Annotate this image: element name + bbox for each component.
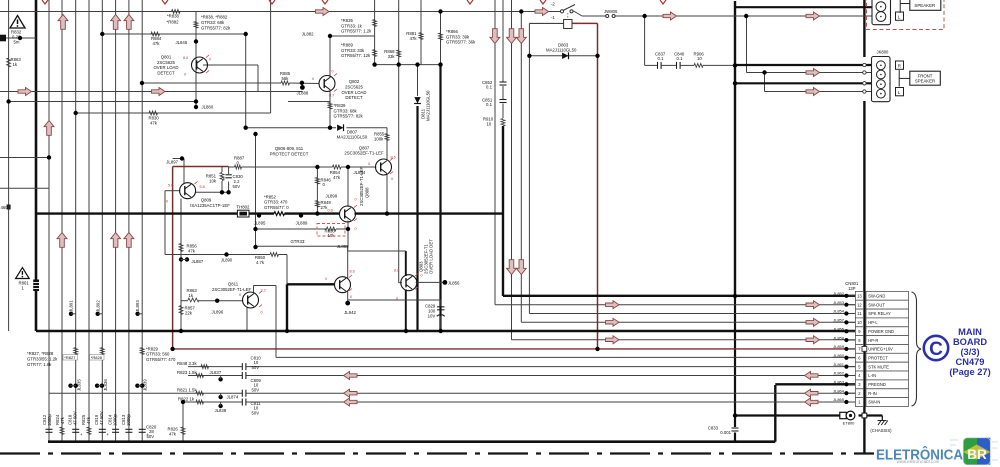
svg-text:0: 0 <box>368 162 370 166</box>
diode D811 <box>414 97 420 103</box>
svg-text:JL888: JL888 <box>297 91 309 96</box>
signal arrow right <box>806 336 820 344</box>
svg-text:DETECT: DETECT <box>157 70 175 75</box>
svg-text:1000p: 1000p <box>113 413 118 426</box>
wire R850 row <box>165 254 270 256</box>
wire <box>288 101 330 103</box>
label *R828 boxed <box>90 355 105 360</box>
svg-text:GTR33: 470: GTR33: 470 <box>264 200 288 205</box>
junction <box>181 400 185 404</box>
wire thick SW-GND row <box>503 295 855 297</box>
wire JW805 net <box>582 15 606 17</box>
wire R866 column <box>440 12 442 65</box>
node JL854 <box>844 311 848 315</box>
svg-text:+: + <box>107 432 110 437</box>
svg-text:DETECT: DETECT <box>345 95 363 100</box>
wire R835/R866 row <box>375 64 441 66</box>
wire thick board edge x864 <box>863 0 865 57</box>
svg-text:0: 0 <box>396 297 398 301</box>
node JL864 <box>844 391 848 395</box>
wire R863 row <box>181 300 188 302</box>
svg-text:JL852: JL852 <box>833 291 845 296</box>
signal arrow left <box>805 372 819 380</box>
svg-text:JL838: JL838 <box>215 408 227 413</box>
wire R887/R854 row <box>229 166 235 168</box>
svg-text:2SC5625: 2SC5625 <box>157 60 176 65</box>
resistor R823 <box>196 374 204 378</box>
junction <box>253 132 257 136</box>
junction <box>215 299 219 303</box>
junction <box>527 54 531 58</box>
wire UNREG+16V red row <box>173 348 856 350</box>
resistor R857 <box>179 306 183 315</box>
signal arrow right <box>806 318 820 326</box>
junction <box>180 156 184 160</box>
wire JL894 column <box>347 167 349 207</box>
wire <box>286 255 288 285</box>
junction <box>244 126 248 130</box>
svg-text:*R827, *R828: *R827, *R828 <box>27 351 54 356</box>
resistor R885 <box>281 81 290 85</box>
board edge hop <box>863 71 866 74</box>
wire jog <box>0 187 49 189</box>
connector CN801 pin 6 box <box>855 353 863 362</box>
wire SPK RELAY row <box>529 313 855 315</box>
signal arrow left <box>344 389 358 397</box>
svg-text:GTR55/77: 36k: GTR55/77: 36k <box>446 40 476 45</box>
wire Q802 collector column <box>329 36 331 77</box>
wire Q801 collector row <box>203 64 258 66</box>
junction <box>328 34 332 38</box>
connector CN801 pin 4 box <box>855 371 863 380</box>
capacitor C851 <box>500 99 507 101</box>
svg-text:HP-L: HP-L <box>868 320 878 325</box>
svg-text:L-IN: L-IN <box>868 373 876 378</box>
box FRONT SPEAKER <box>910 71 941 85</box>
resistor R824 <box>60 427 64 435</box>
connector CN801 pin 7 box <box>855 345 863 354</box>
svg-text:MAIN: MAIN <box>958 327 982 337</box>
brace <box>912 292 922 406</box>
junction <box>253 245 257 249</box>
wire <box>764 73 766 92</box>
svg-text:Q809: Q809 <box>201 198 212 203</box>
wire R868/Q803 base column <box>398 0 400 283</box>
junction <box>47 155 51 159</box>
capacitor C809 <box>241 372 243 379</box>
wire D803 row <box>529 55 597 57</box>
junction JL836 <box>100 384 104 388</box>
capacitor C810 <box>241 363 243 370</box>
wire <box>48 0 50 442</box>
wire <box>8 0 10 331</box>
wire thick JK800 L+ row <box>735 82 873 84</box>
wire thick detect bus <box>355 212 504 214</box>
svg-text:8.6: 8.6 <box>391 156 396 160</box>
wire top rail <box>0 11 562 13</box>
signal arrow right <box>18 88 32 96</box>
resistor R822 <box>196 400 204 404</box>
svg-text:(3/3): (3/3) <box>960 347 979 357</box>
svg-text:0: 0 <box>355 198 357 202</box>
resistor R887 <box>235 165 242 169</box>
junction <box>96 312 100 316</box>
node JL852 <box>844 294 848 298</box>
signal arrow down <box>516 29 526 44</box>
svg-text:Q807: Q807 <box>359 145 370 150</box>
label L box <box>896 12 904 20</box>
wire R-IN row <box>49 392 242 394</box>
wire Q803 base row <box>399 282 402 284</box>
junction <box>595 347 599 351</box>
svg-text:47k: 47k <box>169 431 177 436</box>
resistor R829 <box>140 348 144 355</box>
svg-text:*R838: *R838 <box>167 13 180 18</box>
page reference mark <box>660 0 666 4</box>
svg-text:-2: -2 <box>551 1 555 6</box>
svg-text:JL895: JL895 <box>254 221 266 226</box>
wire pin stub <box>849 313 856 315</box>
svg-text:13: 13 <box>857 294 862 299</box>
capacitor C837 <box>657 62 659 69</box>
wire <box>746 16 748 73</box>
capacitor C829 <box>437 306 444 308</box>
wire thick ET800 row <box>735 414 840 416</box>
warning symbol <box>16 268 30 279</box>
wire D811 column upper <box>417 65 419 96</box>
wire HP-L riser <box>520 12 522 323</box>
svg-text:JL835: JL835 <box>77 379 82 391</box>
svg-text:0: 0 <box>312 77 314 81</box>
wire R855 column <box>386 128 388 160</box>
svg-text:SW-OUT: SW-OUT <box>868 302 885 307</box>
capacitor C818 <box>72 428 79 430</box>
svg-text:47k: 47k <box>410 36 418 41</box>
warning symbol <box>10 16 25 29</box>
diode D803 <box>562 53 568 59</box>
svg-text:+: + <box>80 432 83 437</box>
svg-text:*R828: *R828 <box>91 355 103 360</box>
svg-text:OVER LOAD: OVER LOAD <box>341 90 366 95</box>
red probe tick <box>390 172 393 175</box>
wire <box>141 0 143 442</box>
wire <box>257 65 259 92</box>
capacitor coupling <box>241 390 243 397</box>
reference circle C <box>924 336 948 360</box>
page reference mark <box>42 0 48 4</box>
svg-text:*R839: *R839 <box>334 103 347 108</box>
svg-text:JL891: JL891 <box>69 300 74 312</box>
svg-text:33k: 33k <box>388 54 396 59</box>
svg-text:2SC3052EF-T1-LEF: 2SC3052EF-T1-LEF <box>359 166 364 206</box>
junction <box>642 14 646 18</box>
junction <box>438 62 442 66</box>
svg-text:JL889: JL889 <box>296 221 308 226</box>
svg-text:JL896: JL896 <box>212 310 224 315</box>
junction JL835 <box>68 384 72 388</box>
capacitor C813 <box>125 428 132 430</box>
connector CN801 pin 13 box <box>855 291 863 300</box>
wire JL882 link <box>330 35 375 37</box>
capacitor C840 <box>676 62 678 69</box>
wire pin stub <box>849 357 856 359</box>
junction <box>346 227 350 231</box>
svg-text:47k: 47k <box>153 41 161 46</box>
svg-text:Q802: Q802 <box>349 79 360 84</box>
connector CN801 pin 9 box <box>855 327 863 336</box>
resistor R826 <box>181 427 185 435</box>
connector CN801 pin 5 box <box>855 362 863 371</box>
signal arrow right <box>806 301 820 309</box>
svg-text:0.1: 0.1 <box>677 56 684 61</box>
junction <box>372 62 376 66</box>
transistor Q803 <box>401 275 417 291</box>
label *R827 boxed <box>63 355 78 360</box>
svg-text:MA2J1110GL50: MA2J1110GL50 <box>337 135 368 140</box>
wire pin stub <box>849 366 856 368</box>
watermark backdrop <box>874 446 1000 467</box>
svg-text:13P: 13P <box>848 286 856 291</box>
signal arrow right <box>316 8 330 16</box>
wire pin stub <box>849 304 856 306</box>
svg-text:OVER LOAD DET: OVER LOAD DET <box>429 239 434 274</box>
svg-text:*R838, *R882: *R838, *R882 <box>201 15 228 20</box>
svg-text:JL861: JL861 <box>833 362 845 367</box>
wire pin stub <box>849 339 856 341</box>
connector pin <box>877 61 886 70</box>
junction <box>439 329 443 333</box>
resistor R848 <box>201 365 209 369</box>
signal arrow up <box>58 15 68 30</box>
box SPEAKER <box>910 0 941 10</box>
svg-text:5m: 5m <box>14 40 20 45</box>
connector CN801 pin 3 box <box>855 380 863 389</box>
connector pin <box>877 70 886 79</box>
wire thick bottom bus <box>48 440 775 443</box>
svg-text:FRONT: FRONT <box>918 73 933 78</box>
junction <box>397 62 401 66</box>
wire thick POWER GND row <box>36 330 855 332</box>
junction <box>18 36 22 40</box>
connector CN801 pin 10 box <box>855 318 863 327</box>
svg-text:56k: 56k <box>282 76 290 81</box>
svg-text:JL863: JL863 <box>833 380 845 385</box>
svg-text:JL887: JL887 <box>192 259 204 264</box>
svg-text:GTR33:: GTR33: <box>290 239 305 244</box>
svg-text:R848 3.3k: R848 3.3k <box>177 361 197 366</box>
svg-text:1000p: 1000p <box>47 413 52 426</box>
page reference mark <box>467 0 473 4</box>
node JL837 <box>218 377 222 381</box>
svg-text:JL892: JL892 <box>96 300 101 312</box>
wire thick Q806 base riser <box>286 284 288 331</box>
svg-text:4.7k: 4.7k <box>256 260 265 265</box>
resistor R868 <box>397 50 401 57</box>
capacitor C833 <box>732 427 739 429</box>
svg-text:-1: -1 <box>551 15 555 20</box>
svg-text:GTR55/77: 82k: GTR55/77: 82k <box>334 114 364 119</box>
junction <box>762 70 766 74</box>
resistor R863 <box>7 58 11 67</box>
wire R885 row <box>142 82 281 84</box>
svg-text:BR: BR <box>967 447 987 462</box>
red probe tick <box>349 275 352 278</box>
junction <box>220 190 224 194</box>
signal arrow left <box>344 398 358 406</box>
node JL887 <box>179 257 183 261</box>
wire switch jog <box>574 11 583 16</box>
dashed option box <box>867 0 945 30</box>
signal arrow down <box>490 29 500 44</box>
svg-text:L: L <box>898 90 901 95</box>
svg-text:0: 0 <box>261 311 263 315</box>
svg-text:CN479: CN479 <box>956 357 985 367</box>
red probe tick <box>195 182 198 185</box>
wire R851 column <box>221 167 223 173</box>
junction JL839 <box>140 384 144 388</box>
svg-text:(Page 27): (Page 27) <box>949 367 990 377</box>
resistor R884 <box>151 32 160 36</box>
svg-text:R822 1k: R822 1k <box>178 397 195 402</box>
wire <box>164 191 166 255</box>
wire R853 row <box>256 228 327 230</box>
svg-text:UNREG+16V: UNREG+16V <box>868 347 893 352</box>
svg-text:JL853: JL853 <box>833 300 845 305</box>
resistor R882 <box>194 22 198 29</box>
wire UNREG+16V red riser <box>172 167 174 349</box>
relay contact JW-1/-2 <box>560 10 563 13</box>
wire R835/R889 column <box>374 0 376 65</box>
svg-text:0: 0 <box>184 73 186 77</box>
resistor R821 <box>196 391 204 395</box>
page reference mark <box>540 0 546 4</box>
resistor R906 <box>694 64 703 68</box>
svg-text:JK800: JK800 <box>877 50 890 55</box>
junction square <box>862 347 867 352</box>
wire Q806 column <box>347 292 349 301</box>
label R box <box>896 61 904 69</box>
svg-text:50V: 50V <box>252 387 260 392</box>
svg-text:(CHASSIS): (CHASSIS) <box>870 428 892 433</box>
wire <box>128 0 130 442</box>
wire HP-L row <box>521 321 855 323</box>
svg-text:JL874: JL874 <box>227 395 239 400</box>
svg-text:*R827: *R827 <box>64 355 76 360</box>
connector top speaker <box>872 0 891 25</box>
svg-text:PROTECT: PROTECT <box>868 355 888 360</box>
svg-text:10k: 10k <box>209 179 217 184</box>
resistor R856 <box>179 244 183 252</box>
svg-text:5.8: 5.8 <box>200 185 205 189</box>
svg-text:1000p: 1000p <box>126 413 131 426</box>
svg-text:SPEAKER: SPEAKER <box>914 3 935 8</box>
junction <box>315 165 319 169</box>
node JL858 <box>844 338 848 342</box>
svg-text:50V: 50V <box>252 410 260 415</box>
svg-text:JL899: JL899 <box>326 194 338 199</box>
wire <box>270 0 272 113</box>
svg-text:0.8: 0.8 <box>328 209 333 213</box>
svg-text:JL857: JL857 <box>833 318 845 323</box>
wire D807 row <box>246 127 336 129</box>
svg-text:0: 0 <box>166 200 168 204</box>
svg-text:SPK RELAY: SPK RELAY <box>868 311 891 316</box>
svg-text:+: + <box>223 176 226 181</box>
connector CN801 pin 11 box <box>855 309 863 318</box>
svg-text:JL845: JL845 <box>176 40 188 45</box>
resistor R835 <box>373 20 377 27</box>
wire JL855/protect row <box>256 245 348 247</box>
red probe tick <box>390 158 393 161</box>
resistor R855 <box>385 134 389 141</box>
capacitor C814 <box>112 428 119 430</box>
svg-text:JL880: JL880 <box>202 105 214 110</box>
junction <box>257 213 261 217</box>
red probe tick <box>349 289 352 292</box>
svg-text:PREGND: PREGND <box>868 382 886 387</box>
page reference mark <box>269 0 275 4</box>
svg-text:GTR55/77: 0: GTR55/77: 0 <box>264 205 289 210</box>
signal arrow right <box>152 88 166 96</box>
red probe tick <box>354 205 357 208</box>
svg-text:JL865: JL865 <box>833 397 845 402</box>
node JL863 <box>844 382 848 386</box>
resistor R863b <box>188 298 199 302</box>
resistor R852 <box>274 212 285 216</box>
wire pin stub <box>849 330 856 332</box>
svg-text:11: 11 <box>857 311 862 316</box>
capacitor C852 <box>500 81 507 83</box>
connector CN801 pin 12 box <box>855 300 863 309</box>
signal arrow right <box>806 88 820 96</box>
junction <box>733 63 737 67</box>
wire Q809 collector stub <box>183 159 185 184</box>
svg-text:47k: 47k <box>188 249 196 254</box>
wire Q806 collector column <box>347 246 349 278</box>
signal arrow left <box>805 398 819 406</box>
node JL890 <box>224 252 228 256</box>
wire JL897 stub <box>173 158 184 160</box>
wire Q809 collector row <box>195 191 229 193</box>
connector JK800 body <box>872 57 891 102</box>
connector pin <box>876 2 886 12</box>
wire R884 row <box>102 33 245 35</box>
speaker bracket <box>898 70 900 87</box>
page reference mark <box>322 0 328 4</box>
signal arrow right <box>606 301 620 309</box>
board edge hop <box>863 82 866 85</box>
wire thick JK800 R+ row <box>735 64 873 66</box>
svg-text:0: 0 <box>209 58 211 62</box>
junction JL839 <box>135 384 139 388</box>
svg-text:GTR55/77: 1.2k: GTR55/77: 1.2k <box>341 29 372 34</box>
svg-text:0: 0 <box>350 295 352 299</box>
wire STK MUTE row <box>188 366 242 368</box>
wire thick main left bus <box>35 0 38 331</box>
wire Q803 collector column <box>405 251 407 276</box>
svg-text:GTR77: 1.8k: GTR77: 1.8k <box>27 362 52 367</box>
wire <box>245 34 247 128</box>
svg-text:JW805: JW805 <box>604 9 618 14</box>
svg-text:5.6: 5.6 <box>168 184 173 188</box>
junction <box>285 329 289 333</box>
svg-text:8.6: 8.6 <box>350 270 355 274</box>
junction <box>135 312 139 316</box>
resistor R827 <box>74 348 78 355</box>
red probe tick <box>415 287 418 290</box>
svg-text:JL855: JL855 <box>337 244 349 249</box>
svg-text:2SC3052EF-T1-LEF: 2SC3052EF-T1-LEF <box>212 287 252 292</box>
